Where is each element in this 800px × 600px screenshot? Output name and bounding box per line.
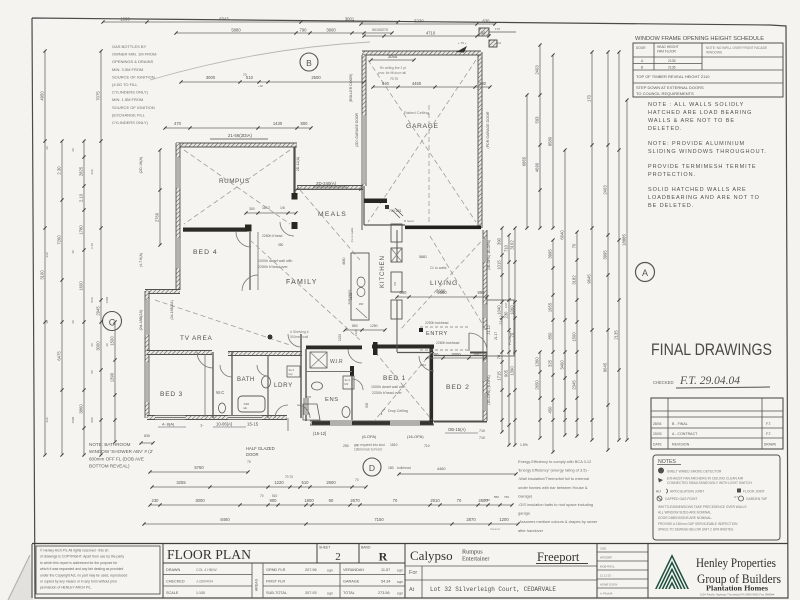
top dim chain 3 (361, 23, 495, 25)
dim chain row low (150, 504, 512, 506)
svg-text:Garage): Garage) (518, 493, 533, 498)
svg-text:1220: 1220 (354, 329, 358, 336)
svg-text:2680: 2680 (437, 290, 447, 295)
svg-text:1500: 1500 (110, 336, 115, 346)
svg-text:F.T.: F.T. (766, 432, 771, 436)
svg-text:TV AREA: TV AREA (180, 335, 213, 342)
hall walls bottom-left block (147, 351, 212, 355)
svg-text:12.12.02: 12.12.02 (600, 574, 611, 578)
svg-text:1.5%: 1.5% (520, 443, 528, 447)
svg-text:2403: 2403 (535, 65, 540, 75)
svg-text:273.56: 273.56 (378, 591, 390, 595)
job number column (596, 544, 598, 599)
svg-text:NOTE: BATHROOM: NOTE: BATHROOM (89, 442, 131, 447)
svg-text:permission of HENLEY ARCH P/L.: permission of HENLEY ARCH P/L. (40, 586, 92, 590)
svg-text:Freeport: Freeport (537, 550, 580, 564)
svg-text:ALL WINDOW SIZES ARE NOMINAL.: ALL WINDOW SIZES ARE NOMINAL. (658, 511, 712, 515)
svg-text:600mm OFF FL (DOB AVE: 600mm OFF FL (DOB AVE (89, 456, 144, 461)
svg-text:NOTE : ALL WALLS SOLIDLY: NOTE : ALL WALLS SOLIDLY (648, 102, 744, 108)
dim row garage left 3000 (181, 81, 364, 83)
black dot hall (268, 335, 272, 339)
ceiling dashes garage (368, 60, 476, 222)
dim 5760 (150, 471, 248, 473)
svg-text:1800: 1800 (304, 498, 314, 503)
svg-text:540: 540 (382, 81, 390, 86)
wir ens block walls (306, 346, 362, 350)
bed3 robe (204, 355, 206, 417)
meals top wall (297, 186, 363, 190)
svg-text:garage: garage (518, 511, 530, 516)
svg-text:Raked Ceiling: Raked Ceiling (404, 110, 429, 115)
svg-text:905: 905 (504, 369, 509, 377)
svg-text:SIZE: SIZE (600, 547, 606, 551)
svg-text:1390: 1390 (110, 372, 115, 382)
title block outer (32, 543, 788, 545)
svg-text:(1B-OPA) (B-OPA): (1B-OPA) (B-OPA) (487, 375, 491, 405)
svg-text:2945: 2945 (96, 306, 101, 316)
svg-text:GAS BOTTLES BY: GAS BOTTLES BY (112, 44, 147, 49)
svg-text:2000: 2000 (451, 352, 461, 357)
dim row above rumpus (165, 127, 311, 129)
svg-text:3162: 3162 (510, 240, 515, 250)
svg-text:710: 710 (424, 444, 430, 448)
step wall at C (145, 290, 180, 294)
svg-text:710: 710 (479, 436, 485, 440)
svg-text:390: 390 (497, 237, 502, 245)
svg-text:18885: 18885 (622, 234, 627, 246)
svg-text:BAND: BAND (361, 546, 371, 550)
svg-text:A/J: A/J (656, 490, 661, 494)
svg-text:1080: 1080 (120, 17, 130, 22)
drawn checked scale rows (163, 574, 252, 576)
svg-text:ENTRY: ENTRY (426, 331, 448, 337)
svg-text:sqm: sqm (397, 592, 403, 596)
svg-text:2D-240(A): 2D-240(A) (316, 181, 337, 186)
top dim chain 4 (364, 35, 489, 37)
svg-text:2260h bukhead: 2260h bukhead (436, 341, 459, 345)
band cell (358, 544, 360, 564)
svg-text:Entertainer: Entertainer (462, 556, 489, 563)
svg-text:3055: 3055 (388, 54, 398, 59)
svg-text:1200: 1200 (499, 517, 509, 522)
svg-text:20/03: 20/03 (653, 432, 662, 436)
svg-text:under frames with bar between: under frames with bar between House & (518, 485, 588, 490)
svg-text:F.T. 29.04.04: F.T. 29.04.04 (679, 375, 740, 387)
svg-text:CYLINDERS ONLY): CYLINDERS ONLY) (112, 120, 149, 125)
garage roller door dim (371, 59, 414, 61)
svg-text:OPENINGS & DRAINS: OPENINGS & DRAINS (112, 59, 153, 64)
svg-text:20: 20 (45, 146, 49, 150)
svg-text:4690: 4690 (535, 162, 540, 172)
svg-text:(1B-OPA) 1B-OPA): (1B-OPA) 1B-OPA) (487, 240, 491, 270)
svg-text:MW: MW (359, 302, 364, 306)
svg-text:VERANDAH: VERANDAH (343, 568, 364, 572)
svg-text:SCALE: SCALE (166, 591, 179, 595)
svg-text:70: 70 (243, 73, 247, 77)
svg-text:ARTICULATION JOINT: ARTICULATION JOINT (670, 490, 704, 494)
svg-text:470: 470 (174, 121, 182, 126)
garage bottom wall dark (405, 226, 481, 230)
svg-text:5760: 5760 (194, 465, 204, 470)
entry label (419, 328, 423, 332)
svg-text:20: 20 (105, 343, 109, 347)
svg-text:70 70: 70 70 (285, 475, 293, 479)
svg-text:RUMPUS: RUMPUS (219, 178, 250, 185)
svg-text:bulkhead: bulkhead (397, 466, 411, 470)
svg-text:230: 230 (90, 169, 94, 174)
svg-text:CHECKED: CHECKED (653, 380, 673, 385)
henley cell (647, 544, 649, 599)
svg-text:510: 510 (272, 494, 278, 498)
svg-text:(2d-16B(2A): (2d-16B(2A) (170, 300, 174, 320)
svg-text:70: 70 (457, 498, 462, 503)
svg-text:90100270: 90100270 (372, 28, 388, 32)
svg-text:OB-15(A): OB-15(A) (448, 427, 466, 432)
svg-text:130mm tub to Front: 130mm tub to Front (354, 448, 382, 452)
svg-text:3100: 3100 (40, 270, 45, 280)
svg-text:710: 710 (504, 244, 509, 252)
svg-text:900: 900 (270, 498, 278, 503)
svg-text:TOP OF TIMBER REVEAL HEIGHT 21: TOP OF TIMBER REVEAL HEIGHT 2110 (636, 74, 710, 79)
svg-text:20: 20 (71, 320, 75, 324)
section circle C (103, 312, 122, 331)
svg-text:W.I.R: W.I.R (330, 359, 343, 365)
porch outline (487, 300, 514, 356)
svg-text:TOTAL: TOTAL (343, 591, 355, 595)
wc fixture (219, 403, 226, 413)
svg-text:2910: 2910 (430, 498, 440, 503)
svg-text:10-06(A): 10-06(A) (216, 422, 233, 427)
svg-text:5230: 5230 (414, 19, 424, 24)
section circle D (363, 458, 381, 476)
ens fixtures (312, 382, 323, 390)
bottom wall ens bed1 (310, 421, 434, 425)
svg-text:ENS: ENS (325, 397, 339, 403)
floor plan cell (162, 544, 164, 599)
svg-text:3800: 3800 (326, 28, 336, 33)
svg-text:tap: tap (289, 372, 293, 376)
svg-text:850: 850 (352, 324, 358, 328)
svg-text:HATCHED ARE LOAD BEARING: HATCHED ARE LOAD BEARING (648, 110, 752, 116)
svg-text:DRAWN: DRAWN (764, 443, 777, 447)
svg-text:8580: 8580 (548, 136, 553, 146)
svg-text:© Henley Arch P/L All righ: © Henley Arch P/L All rights reserved - … (40, 549, 108, 553)
svg-text:Lot 32 Silverleigh Court, CEDA: Lot 32 Silverleigh Court, CEDARVALE (430, 586, 556, 593)
svg-text:70: 70 (260, 494, 264, 498)
svg-text:DOOR: DOOR (246, 452, 259, 457)
svg-text:1812: 1812 (262, 206, 270, 210)
svg-text:1254 Pacific Highway Thornleig: 1254 Pacific Highway Thornleigh Ph 9980-… (700, 593, 775, 597)
svg-text:5880: 5880 (231, 28, 241, 33)
svg-text:2.10: 2.10 (79, 193, 84, 202)
svg-text:510: 510 (302, 480, 310, 485)
svg-text:SUB-TOTAL: SUB-TOTAL (266, 591, 287, 595)
svg-text:(16-OPA): (16-OPA) (407, 434, 424, 439)
svg-text:700 1B1: 700 1B1 (389, 209, 402, 213)
svg-text:(EXCHANGE FILL: (EXCHANGE FILL (112, 112, 146, 117)
svg-text:HEAD HEIGHT: HEAD HEIGHT (657, 45, 679, 49)
svg-text:CONNECTED SIMULTANEOUSLY WITH: CONNECTED SIMULTANEOUSLY WITH LIGHT SWIT… (667, 481, 752, 485)
svg-text:WALLS & ARE NOT TO BE: WALLS & ARE NOT TO BE (648, 118, 735, 124)
svg-text:DOOR DIMENSIONS ARE NOMINAL.: DOOR DIMENSIONS ARE NOMINAL. (658, 516, 712, 520)
svg-text:400: 400 (432, 352, 440, 357)
svg-text:710: 710 (479, 429, 485, 433)
svg-text:3000: 3000 (206, 75, 216, 80)
svg-text:FAMILY: FAMILY (286, 279, 318, 286)
svg-text:MIN. 1.5M FROM: MIN. 1.5M FROM (112, 97, 143, 102)
scan streak bottom left (8, 555, 33, 600)
svg-text:LOADBEARING AND ARE NOT TO: LOADBEARING AND ARE NOT TO (648, 195, 760, 201)
svg-text:230: 230 (152, 498, 160, 503)
svg-text:LDRY: LDRY (274, 382, 293, 389)
svg-text:tub: tub (243, 406, 248, 410)
svg-text:1220: 1220 (274, 480, 284, 485)
svg-text:890: 890 (400, 290, 408, 295)
kitchen fixtures (351, 253, 369, 320)
svg-text:11.57: 11.57 (381, 568, 390, 572)
svg-text:9645: 9645 (603, 362, 608, 372)
svg-text:3460: 3460 (560, 360, 565, 370)
svg-text:(2d-18B(2A): (2d-18B(2A) (139, 309, 143, 330)
svg-text:1500: 1500 (572, 332, 577, 342)
svg-text:BED 3: BED 3 (160, 391, 183, 398)
garage house step wall (364, 199, 387, 204)
family meals kitchen lines (361, 186, 363, 230)
svg-text:REVISION: REVISION (672, 443, 690, 447)
sheet cell (316, 544, 318, 564)
svg-text:Henley Properties: Henley Properties (696, 555, 776, 570)
svg-text:6475: 6475 (57, 351, 62, 361)
svg-text:LIVING: LIVING (430, 280, 458, 287)
svg-text:2650: 2650 (535, 380, 540, 390)
svg-text:5881: 5881 (419, 255, 427, 259)
svg-text:20: 20 (90, 343, 94, 347)
svg-text:6343: 6343 (219, 17, 229, 22)
svg-text:90: 90 (481, 31, 486, 36)
svg-text:to which this report is addres: to which this report is addressed for th… (40, 561, 118, 565)
top dim chain 2 (176, 32, 392, 34)
svg-text:FLOOR PLAN: FLOOR PLAN (167, 548, 251, 563)
svg-text:790: 790 (300, 28, 308, 33)
svg-text:(PDR GARAGE DOOR: (PDR GARAGE DOOR (486, 111, 490, 148)
right side vertical dim chains (539, 45, 541, 228)
ceiling dashes family living (250, 240, 360, 340)
svg-text:230: 230 (504, 311, 509, 319)
svg-text:1430: 1430 (273, 121, 283, 126)
svg-text:2135: 2135 (614, 330, 619, 340)
svg-text:3995: 3995 (548, 249, 553, 259)
svg-text:gap required into stud: gap required into stud (354, 443, 385, 447)
svg-text:which it was requested and any: which it was requested and any fair deal… (40, 567, 123, 571)
svg-text:170: 170 (587, 94, 592, 102)
svg-text:Plantation Homes: Plantation Homes (706, 584, 768, 593)
svg-text:BOTTOM REVEAL): BOTTOM REVEAL) (89, 464, 130, 469)
svg-text:7075: 7075 (96, 91, 101, 101)
svg-text:500mm wall: 500mm wall (290, 335, 308, 339)
svg-text:# Shelving #: # Shelving # (290, 330, 309, 334)
svg-text:1565: 1565 (305, 395, 312, 399)
svg-text:SMELT WIRED SMOKE DETECTOR: SMELT WIRED SMOKE DETECTOR (667, 470, 722, 474)
door arcs (242, 275, 258, 291)
svg-text:170: 170 (495, 27, 500, 31)
svg-text:4460: 4460 (412, 81, 422, 86)
svg-text:HALF GLAZED: HALF GLAZED (246, 446, 275, 451)
svg-text:3.0: 3.0 (497, 41, 502, 45)
revision table (651, 398, 783, 449)
svg-text:2135: 2135 (668, 59, 676, 63)
svg-text:4680: 4680 (342, 257, 346, 265)
svg-text:I+ PALMA: I+ PALMA (600, 592, 613, 596)
svg-text:(15-12]: (15-12] (313, 431, 326, 436)
svg-text:of drawings is COPYRIGHT. Apar: of drawings is COPYRIGHT. Apart from use… (40, 555, 124, 559)
svg-text:230: 230 (479, 81, 487, 86)
svg-text:MIN. 3.5M FROM: MIN. 3.5M FROM (112, 67, 143, 72)
svg-text:850: 850 (494, 495, 499, 499)
svg-text:Mir: Mir (345, 382, 349, 386)
svg-text:Rx ceiling line 2 pt: Rx ceiling line 2 pt (380, 66, 406, 70)
svg-text:(2D-18(A): (2D-18(A) (139, 156, 143, 173)
svg-text:CL to walls: CL to walls (350, 227, 354, 242)
svg-text:1510: 1510 (390, 443, 398, 447)
dark arrow mark garage top (456, 46, 467, 53)
garage pier details top right (479, 28, 489, 36)
svg-text:DRAWN: DRAWN (166, 568, 180, 572)
svg-text:2403: 2403 (603, 185, 608, 195)
svg-text:30: 30 (71, 250, 75, 254)
svg-text:630: 630 (483, 19, 491, 24)
svg-text:230: 230 (45, 417, 49, 422)
svg-text:A - CONTRACT: A - CONTRACT (672, 432, 698, 436)
svg-text:9645: 9645 (587, 274, 592, 284)
svg-text:GARDEN TAP: GARDEN TAP (746, 497, 768, 501)
svg-text:or copied by any means or in a: or copied by any means or in any form wi… (40, 580, 118, 584)
svg-text:400: 400 (474, 352, 482, 357)
svg-text:F.T.: F.T. (766, 422, 771, 426)
svg-text:21-56(2DIA): 21-56(2DIA) (228, 133, 252, 138)
svg-text:3001: 3001 (345, 17, 355, 22)
svg-text:J-28/04/04: J-28/04/04 (196, 580, 213, 584)
svg-text:325: 325 (548, 359, 553, 367)
svg-text:7.30: 7.30 (484, 498, 490, 502)
svg-text:PROVIDE A 150mm GAP SERVICEABL: PROVIDE A 150mm GAP SERVICEABLE INSPECTI… (658, 522, 738, 526)
svg-text:70: 70 (355, 478, 359, 482)
svg-text:2825: 2825 (79, 166, 84, 176)
svg-text:BED 1: BED 1 (383, 375, 406, 382)
svg-text:890: 890 (90, 417, 94, 422)
svg-text:1590: 1590 (71, 416, 75, 423)
svg-text:OWNER MIN. 1M FROM: OWNER MIN. 1M FROM (112, 52, 156, 57)
svg-text:20: 20 (71, 148, 75, 152)
right wall bed2 living (483, 230, 487, 421)
svg-text:90: 90 (329, 498, 334, 503)
svg-text:SPACE TO SEWAGE BELOW UNIT 2: SPACE TO SEWAGE BELOW UNIT 2 GPA WASTES. (658, 527, 734, 531)
svg-text:AREAS: AREAS (255, 578, 259, 591)
bath fixtures (238, 396, 265, 412)
svg-text:800: 800 (301, 121, 309, 126)
svg-text:B - FINAL: B - FINAL (672, 422, 688, 426)
svg-text:WHITTLE/DIMENSIONS TAKE PRECED: WHITTLE/DIMENSIONS TAKE PRECEDENCE OVER … (658, 505, 747, 509)
scan crease curve (150, 42, 370, 80)
svg-text:4950: 4950 (40, 91, 45, 101)
svg-text:Calypso: Calypso (410, 548, 453, 563)
svg-text:2.30: 2.30 (57, 166, 62, 175)
window gaps left wall (176, 158, 181, 188)
svg-text:2500: 2500 (311, 75, 321, 80)
bed1 top wall solid (372, 345, 434, 349)
bed2 top wall (434, 355, 487, 357)
svg-text:2870: 2870 (466, 517, 476, 522)
svg-text:760: 760 (504, 495, 509, 499)
svg-text:OB2: OB2 (420, 363, 426, 367)
svg-text:(6-OPA): (6-OPA) (362, 434, 377, 439)
svg-text:(ROLLER DOOR): (ROLLER DOOR) (349, 74, 353, 103)
svg-text:-Wall insulation/Thermofoil fo: -Wall insulation/Thermofoil foil to exte… (518, 476, 589, 481)
svg-text:FRM FLOOR: FRM FLOOR (657, 50, 676, 54)
svg-text:850: 850 (548, 332, 553, 340)
svg-text:2250h bukhead: 2250h bukhead (425, 321, 448, 325)
svg-text:W.C: W.C (216, 390, 224, 395)
svg-text:3860: 3860 (79, 404, 84, 414)
svg-text:70: 70 (247, 460, 251, 464)
svg-text:KITCHEN: KITCHEN (379, 255, 386, 288)
svg-text:Drop Ceiling: Drop Ceiling (388, 409, 408, 413)
copyright cell (36, 546, 160, 594)
svg-text:D: D (369, 463, 375, 473)
svg-text:350: 350 (278, 243, 284, 247)
svg-text:2260h b'head: 2260h b'head (262, 234, 283, 238)
bed4 right robe (249, 232, 251, 290)
garage left wall (362, 55, 366, 186)
svg-text:3182: 3182 (572, 275, 577, 285)
svg-text:2760: 2760 (155, 212, 160, 222)
svg-text:GRND FLR: GRND FLR (266, 568, 286, 572)
svg-text:70: 70 (497, 354, 502, 359)
svg-text:7260: 7260 (57, 235, 62, 245)
svg-text:1715: 1715 (497, 371, 502, 381)
svg-text:PROVIDE TERMIMESH TERMITE: PROVIDE TERMIMESH TERMITE (648, 164, 757, 170)
svg-text:890: 890 (478, 290, 486, 295)
svg-text:1000h dwarf wall with: 1000h dwarf wall with (371, 385, 405, 389)
bed1 right wall solid (430, 348, 434, 422)
svg-text:2670: 2670 (350, 498, 360, 503)
svg-text:sqm: sqm (397, 580, 403, 584)
svg-text:50: 50 (90, 370, 94, 374)
svg-text:EST: EST (504, 302, 508, 308)
svg-text:BE DELETED.: BE DELETED. (648, 203, 694, 209)
svg-text:FINAL DRAWINGS: FINAL DRAWINGS (651, 341, 772, 359)
svg-text:70: 70 (510, 332, 515, 337)
svg-text:2600: 2600 (326, 480, 336, 485)
dim chain bottom totals (144, 523, 518, 525)
garage right wall (478, 52, 482, 228)
svg-text:3995: 3995 (603, 250, 608, 260)
svg-text:BED 2: BED 2 (446, 384, 470, 391)
for at rows (405, 565, 597, 567)
svg-text:DATE: DATE (653, 443, 663, 447)
svg-text:2: 2 (335, 551, 341, 563)
svg-text:2.10: 2.10 (90, 243, 94, 249)
misc top-left interior dim (159, 150, 161, 245)
svg-text:Rumpus: Rumpus (462, 549, 483, 556)
svg-text:SLIDING WINDOWS THROUGHOUT.: SLIDING WINDOWS THROUGHOUT. (648, 149, 767, 155)
svg-text:FLOOR JOINT: FLOOR JOINT (743, 490, 765, 494)
svg-text:B head: B head (404, 219, 414, 223)
svg-text:28/04: 28/04 (653, 422, 662, 426)
svg-text:4710: 4710 (426, 31, 436, 36)
garage top wall (362, 51, 481, 55)
svg-text:COL 4 HB/W: COL 4 HB/W (196, 568, 217, 572)
svg-text:905: 905 (365, 402, 369, 408)
